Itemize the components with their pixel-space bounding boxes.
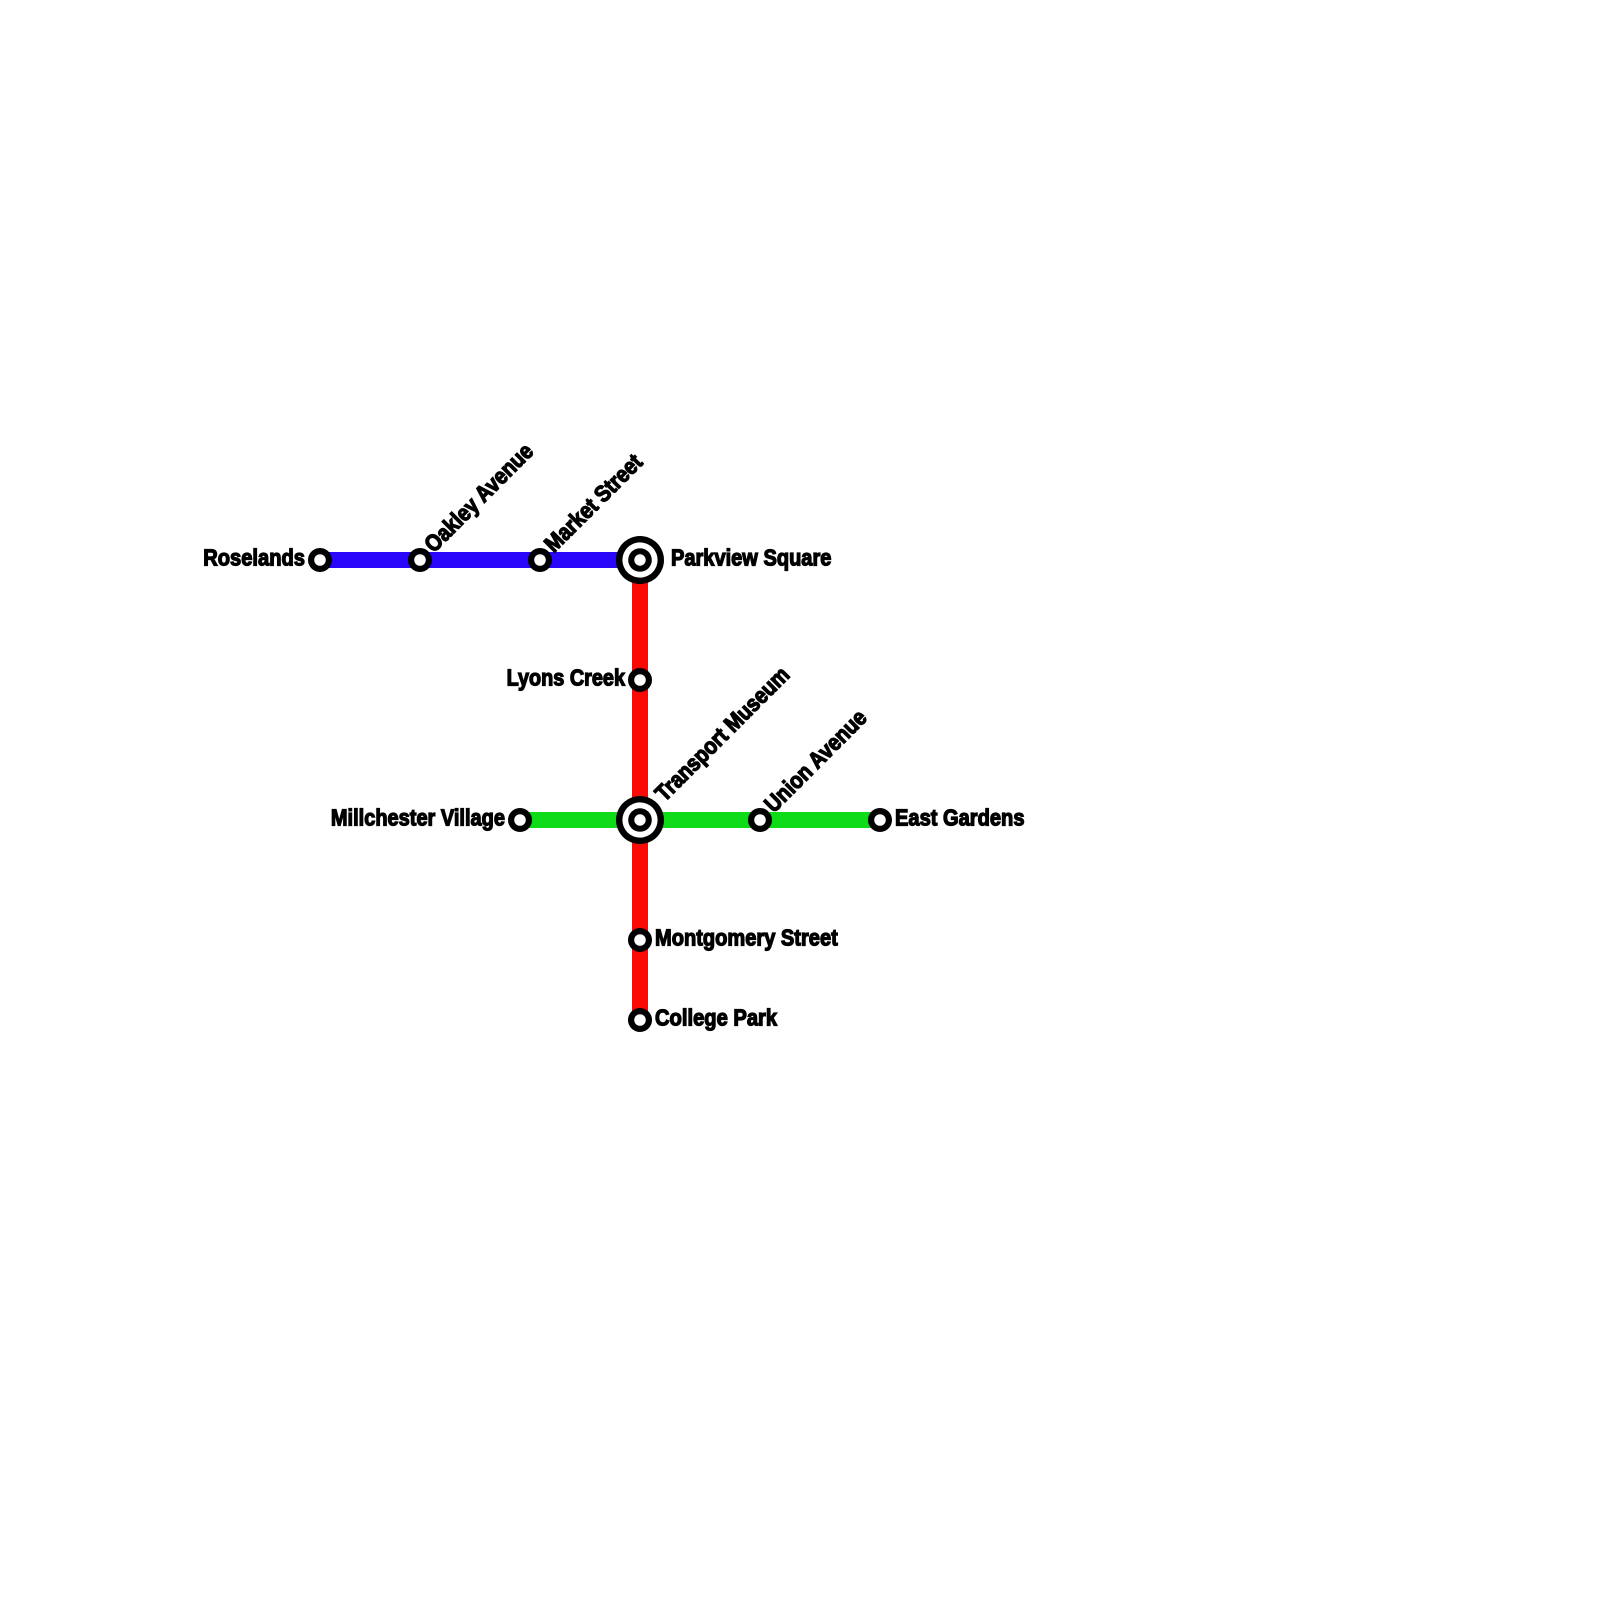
station Lyons Creek [631,671,649,689]
station Oakley Avenue [411,551,429,569]
svg-text:Parkview Square: Parkview Square [671,545,831,571]
station East Gardens [871,811,889,829]
interchange station Parkview Square [616,536,664,584]
label East Gardens [895,805,1025,831]
station Union Avenue [751,811,769,829]
label Market Street (rotated) [539,449,648,558]
label Lyons Creek [507,665,626,691]
svg-text:East Gardens: East Gardens [895,805,1025,831]
label Union Avenue (rotated) [759,704,872,817]
blue line Roselands-Parkview Square [320,552,640,568]
svg-text:Lyons Creek: Lyons Creek [507,665,626,691]
svg-text:Montgomery Street: Montgomery Street [655,925,838,951]
station College Park [631,1011,649,1029]
label Millchester Village [331,805,505,831]
label Montgomery Street [655,925,838,951]
station Montgomery Street [631,931,649,949]
label Parkview Square [671,545,831,571]
svg-text:College Park: College Park [655,1005,777,1031]
station Market Street [531,551,549,569]
station Millchester Village [511,811,529,829]
svg-text:Roselands: Roselands [203,545,305,571]
label College Park [655,1005,777,1031]
label Roselands [203,545,305,571]
red line Parkview Square-College Park [632,560,648,1020]
svg-text:Millchester Village: Millchester Village [331,805,505,831]
green line Millchester Village-East Gardens [520,812,880,828]
label Oakley Avenue (rotated) [419,438,538,557]
label Transport Museum (rotated) [650,661,795,806]
station Roselands [311,551,329,569]
interchange station Transport Museum [616,796,664,844]
